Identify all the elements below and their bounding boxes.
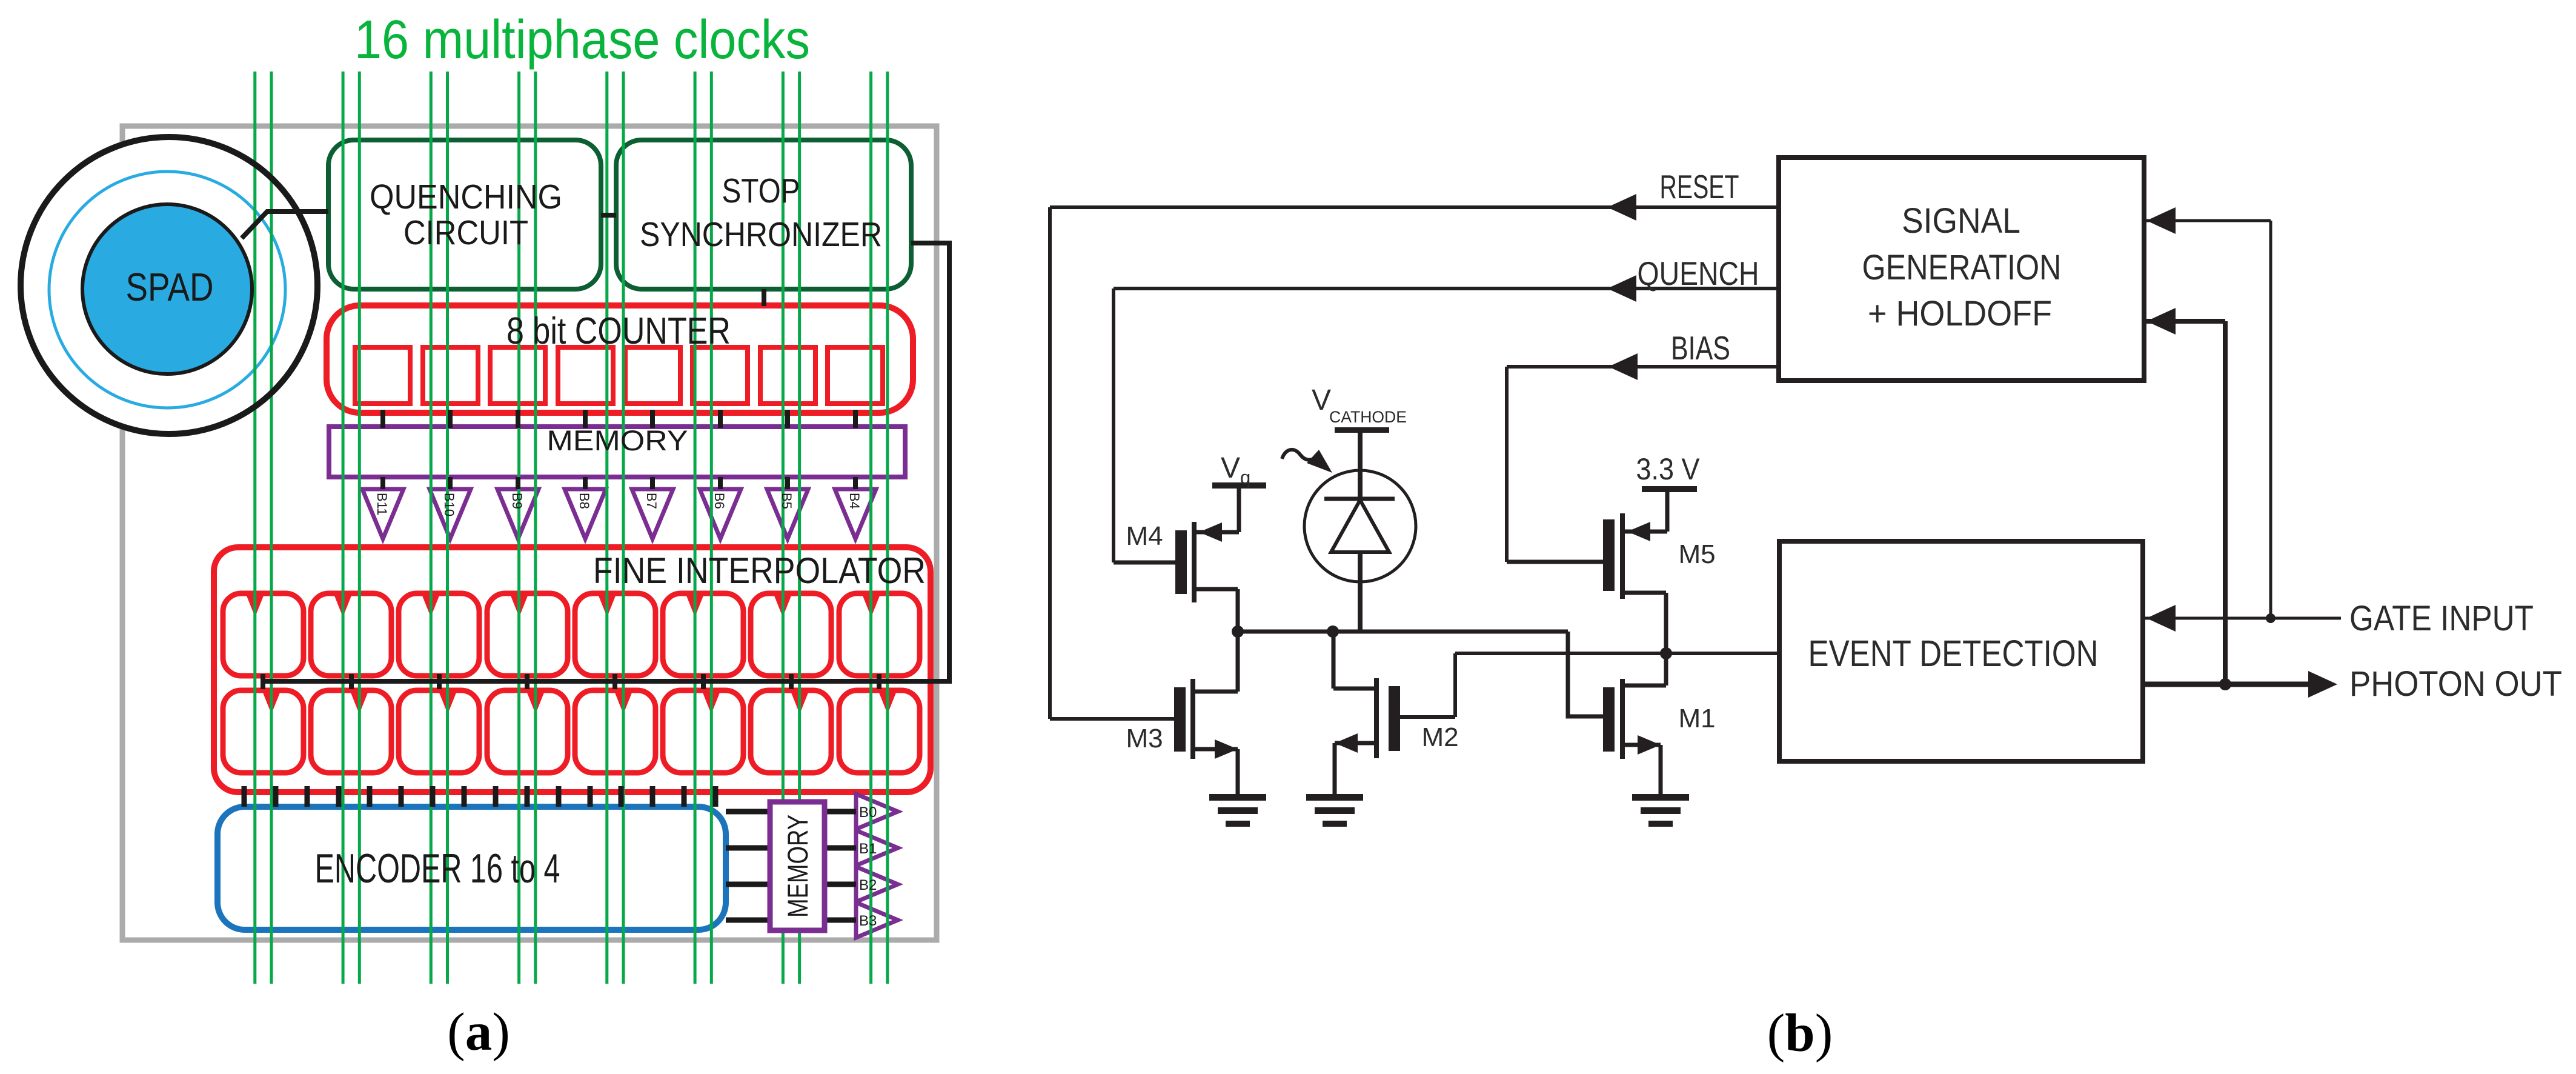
GATE INPUT net [2143, 617, 2341, 620]
stop feedback wire to interpolator mid rail [263, 243, 949, 681]
interpolator row 2 cells [223, 690, 920, 773]
svg-text:SYNCHRONIZER: SYNCHRONIZER [640, 215, 882, 254]
svg-text:M5: M5 [1678, 539, 1715, 569]
interpolator-encoder ties [244, 786, 715, 807]
svg-text:B3: B3 [859, 913, 877, 929]
Vq supply [1212, 482, 1266, 489]
svg-text:B9: B9 [510, 493, 525, 509]
wire SPAD to quenching [242, 212, 328, 238]
svg-text:B4: B4 [847, 493, 862, 509]
svg-text:GENERATION: GENERATION [1862, 248, 2062, 287]
output memory block [770, 802, 825, 930]
svg-text:BIAS: BIAS [1671, 329, 1730, 367]
counter-memory ties [383, 410, 855, 428]
svg-text:8 bit COUNTER: 8 bit COUNTER [506, 310, 731, 352]
svg-text:EVENT DETECTION: EVENT DETECTION [1808, 633, 2099, 674]
svg-text:B11: B11 [374, 493, 390, 516]
svg-text:B2: B2 [859, 877, 877, 893]
SPAD active area fill [82, 204, 252, 374]
QUENCH net [1114, 287, 1779, 290]
stop synchronizer block [616, 140, 911, 289]
encoder block [217, 807, 726, 930]
svg-text:M1: M1 [1678, 704, 1715, 733]
svg-text:PHOTON OUT: PHOTON OUT [2349, 664, 2562, 704]
BIAS net [1507, 365, 1779, 369]
PHOTON OUT net [2143, 682, 2309, 687]
signal generation + holdoff block [1779, 158, 2144, 381]
svg-text:SIGNAL: SIGNAL [1902, 201, 2020, 241]
SPAD shallow ring (blue) [49, 172, 285, 408]
memory-buffer ties [383, 477, 855, 489]
output buffers B0-B3 [856, 794, 898, 938]
svg-text:M3: M3 [1126, 724, 1163, 753]
quenching circuit block [328, 140, 601, 289]
svg-text:B1: B1 [859, 841, 877, 857]
buffers B11-B4 [362, 489, 876, 539]
transistor M3 (NMOS reset) [1050, 632, 1238, 795]
pixel boundary gray frame [122, 126, 937, 940]
RESET net [1050, 205, 1779, 209]
svg-text:M2: M2 [1421, 722, 1458, 752]
encoder to output memory wires B0-B3 [726, 812, 856, 920]
transistor M2 (NMOS, mirrored) [1333, 632, 1455, 795]
ground M1 [1632, 794, 1689, 827]
interpolator mid rail ties [263, 674, 879, 689]
svg-text:MEMORY: MEMORY [547, 424, 688, 456]
node B rail (sense node) [1455, 652, 1779, 655]
ground M2 [1306, 794, 1363, 827]
svg-text:SPAD: SPAD [126, 265, 214, 309]
svg-text:ENCODER 16 to 4: ENCODER 16 to 4 [315, 846, 560, 892]
svg-text:B6: B6 [712, 493, 727, 509]
transistor M4 (PMOS quench) [1114, 489, 1239, 632]
SPAD outer disc fill [21, 137, 317, 434]
svg-text:(a): (a) [447, 1002, 510, 1062]
svg-text:B10: B10 [442, 493, 457, 516]
3.3V supply [1642, 486, 1697, 492]
svg-text:B0: B0 [859, 804, 877, 821]
svg-text:3.3 V: 3.3 V [1636, 452, 1701, 486]
wire quenching-stop connector [601, 213, 616, 218]
svg-text:CATHODE: CATHODE [1329, 408, 1407, 426]
16 multiphase clock lines [255, 72, 888, 984]
counter bit cells [355, 347, 883, 404]
SPAD active area ring [82, 204, 252, 374]
svg-text:QUENCHING: QUENCHING [370, 178, 562, 216]
svg-text:M4: M4 [1126, 521, 1163, 551]
memory block (a) [329, 427, 905, 477]
V_CATHODE supply [1335, 427, 1389, 433]
svg-text:GATE INPUT: GATE INPUT [2349, 599, 2534, 638]
svg-text:MEMORY: MEMORY [782, 815, 814, 918]
8 bit counter block [327, 305, 913, 413]
svg-text:CIRCUIT: CIRCUIT [403, 213, 528, 252]
SPAD anode lead [1358, 552, 1363, 632]
wire stop to counter [762, 289, 766, 306]
node A to M1 gate [1568, 632, 1603, 716]
photon squiggle arrow [1282, 450, 1320, 460]
transistor M1 (NMOS event) [1568, 679, 1666, 795]
svg-text:B8: B8 [577, 493, 592, 509]
fine interpolator block [214, 547, 931, 792]
ground M3 [1209, 794, 1266, 827]
transistor M5 (PMOS bias) [1507, 492, 1667, 685]
SPAD diode D1 [1304, 470, 1416, 582]
svg-text:QUENCH: QUENCH [1638, 255, 1759, 292]
SPAD outer guard ring [21, 137, 317, 434]
interpolator row 1 cells [223, 593, 920, 676]
svg-text:(b): (b) [1767, 1004, 1833, 1063]
svg-text:V: V [1312, 384, 1331, 416]
event detection block [1779, 541, 2143, 761]
node A rail (anode node) [1238, 630, 1568, 634]
svg-text:+ HOLDOFF: + HOLDOFF [1868, 294, 2052, 333]
svg-text:FINE INTERPOLATOR: FINE INTERPOLATOR [593, 550, 926, 591]
svg-text:STOP: STOP [722, 172, 800, 210]
svg-text:B7: B7 [644, 493, 659, 509]
svg-text:RESET: RESET [1660, 168, 1739, 205]
svg-text:16 multiphase clocks: 16 multiphase clocks [354, 10, 810, 70]
svg-text:B5: B5 [779, 493, 794, 509]
